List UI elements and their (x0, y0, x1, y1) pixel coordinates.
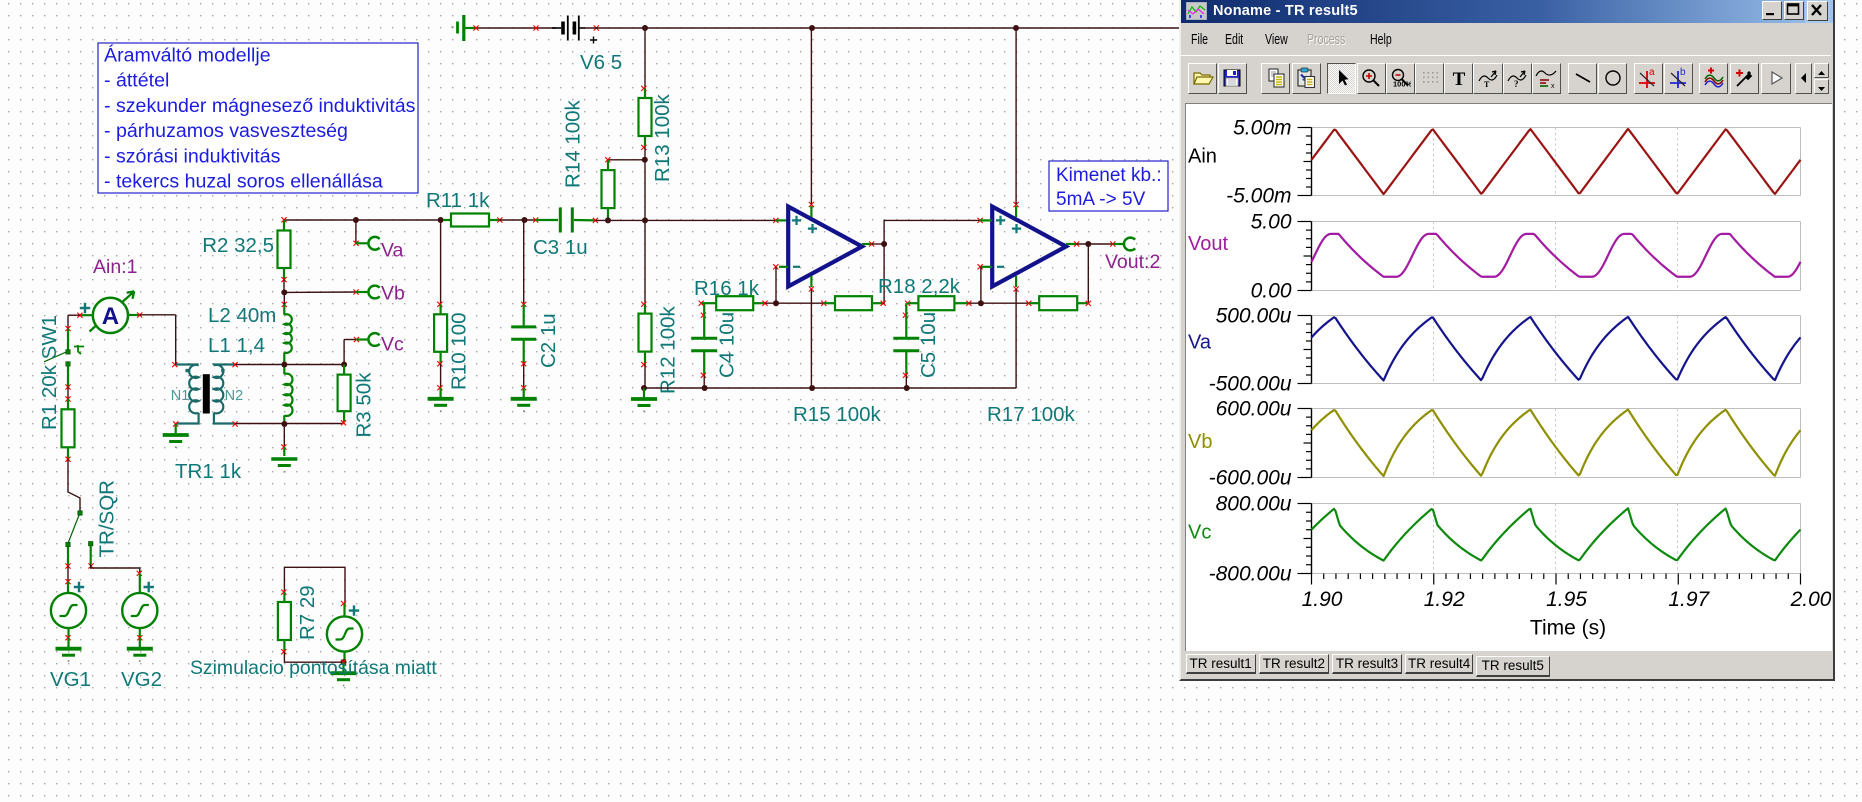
svg-text:L1 1,4: L1 1,4 (208, 334, 265, 357)
svg-text:C2 1u: C2 1u (537, 313, 560, 368)
svg-text:1.92: 1.92 (1424, 588, 1465, 611)
svg-text:R10 100: R10 100 (448, 312, 471, 390)
svg-text:C4 10u: C4 10u (716, 312, 739, 378)
svg-text:R12 100k: R12 100k (657, 305, 680, 394)
svg-text:R2 32,5: R2 32,5 (202, 234, 274, 257)
svg-text:1.97: 1.97 (1668, 588, 1710, 611)
svg-text:Szimulacio pontosítása miatt: Szimulacio pontosítása miatt (190, 657, 437, 679)
svg-text:V6 5: V6 5 (580, 51, 622, 74)
svg-text:b: b (1680, 67, 1686, 78)
svg-text:-600.00u: -600.00u (1209, 467, 1292, 490)
svg-text:VG1: VG1 (50, 668, 91, 691)
svg-text:R14 100k: R14 100k (562, 99, 585, 188)
svg-text:R7 29: R7 29 (296, 585, 319, 640)
svg-text:R17 100k: R17 100k (987, 403, 1076, 426)
svg-text:R13 100k: R13 100k (651, 93, 674, 182)
svg-text:5.00: 5.00 (1251, 211, 1292, 234)
svg-text:Vb: Vb (381, 283, 405, 305)
svg-text:Vc: Vc (1188, 522, 1211, 544)
svg-text:Vc: Vc (381, 334, 404, 356)
svg-text:Vout: Vout (1188, 233, 1228, 255)
svg-text:TR1 1k: TR1 1k (175, 460, 242, 483)
svg-text:Ain: Ain (1188, 146, 1217, 168)
svg-text:1.95: 1.95 (1546, 588, 1587, 611)
svg-text:Vb: Vb (1188, 431, 1212, 453)
svg-text:Vout:2: Vout:2 (1105, 251, 1160, 273)
svg-text:?: ? (1514, 79, 1519, 89)
svg-text:VG2: VG2 (121, 668, 162, 691)
svg-text:- áttétel: - áttétel (104, 70, 169, 92)
svg-text:C3 1u: C3 1u (533, 236, 588, 259)
svg-text:5mA -> 5V: 5mA -> 5V (1056, 189, 1146, 210)
svg-text:600.00u: 600.00u (1216, 398, 1292, 421)
svg-text:C5 10u: C5 10u (917, 312, 940, 378)
svg-text:N1: N1 (171, 388, 190, 404)
svg-text:N2: N2 (225, 388, 244, 404)
svg-text:500.00u: 500.00u (1216, 305, 1292, 328)
svg-text:T: T (1484, 80, 1490, 89)
svg-text:800.00u: 800.00u (1216, 493, 1292, 516)
svg-text:- párhuzamos vasveszteség: - párhuzamos vasveszteség (104, 120, 348, 142)
svg-text:x: x (1551, 83, 1555, 89)
svg-text:1.90: 1.90 (1302, 588, 1343, 611)
svg-text:R16 1k: R16 1k (694, 277, 760, 300)
svg-text:R1 20k SW1: R1 20k SW1 (38, 315, 61, 430)
svg-text:R11 1k: R11 1k (426, 189, 490, 212)
svg-text:Áramváltó modellje: Áramváltó modellje (104, 44, 271, 67)
svg-text:A: A (102, 303, 119, 330)
svg-text:-5.00m: -5.00m (1226, 185, 1291, 208)
svg-text:5.00m: 5.00m (1233, 117, 1291, 140)
svg-text:-500.00u: -500.00u (1209, 373, 1292, 396)
svg-text:100%: 100% (1393, 80, 1411, 89)
svg-text:-800.00u: -800.00u (1209, 563, 1292, 586)
svg-text:- szórási induktivitás: - szórási induktivitás (104, 145, 281, 167)
svg-text:Va: Va (1188, 332, 1212, 354)
svg-text:Kimenet kb.:: Kimenet kb.: (1056, 165, 1162, 186)
svg-text:R15 100k: R15 100k (793, 403, 882, 426)
svg-text:T: T (1452, 69, 1465, 89)
svg-text:Ain:1: Ain:1 (93, 256, 137, 278)
svg-text:- szekunder mágnesező induktiv: - szekunder mágnesező induktivitás (104, 95, 416, 117)
svg-text:R3 50k: R3 50k (353, 372, 376, 438)
svg-text:Va: Va (381, 240, 404, 262)
svg-text:2.00: 2.00 (1790, 588, 1831, 611)
svg-text:- tekercs huzal soros ellenáll: - tekercs huzal soros ellenállása (104, 171, 383, 193)
svg-text:TR/SQR: TR/SQR (96, 480, 119, 557)
svg-text:Time (s): Time (s) (1530, 617, 1606, 640)
svg-text:L2 40m: L2 40m (208, 304, 276, 327)
svg-text:R18 2,2k: R18 2,2k (878, 275, 961, 298)
svg-text:0.00: 0.00 (1251, 280, 1292, 303)
svg-text:a: a (1649, 67, 1655, 78)
